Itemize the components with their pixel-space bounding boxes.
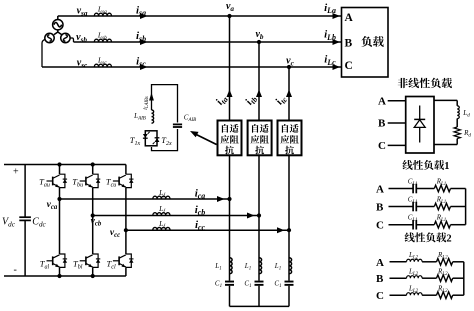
node va [226,1,234,18]
inductor Lsb [94,30,111,42]
resistor RL2 phase C [437,285,453,299]
capacitor CL1 phase B [408,195,418,211]
source neutral Y connection [54,16,62,35]
junction dot c [287,228,291,232]
thyristor T2x [153,135,172,147]
resistor RL1 phase A [434,178,450,192]
svg-text:B: B [376,202,384,214]
svg-text:A: A [345,12,354,24]
capacitor CL1 phase C [408,214,418,230]
junction dot a [227,197,231,201]
inductor LL2 phase A [407,251,423,262]
inverter leg b wire [91,162,95,278]
adaptive impedance box phase b [248,121,272,156]
svg-text:1: 1 [444,161,449,172]
terminal B nonlinear [378,118,406,130]
heading nonlinear load [398,78,408,88]
svg-text:-: - [14,265,17,276]
wire tap line b [258,42,260,306]
IGBT Tbu [72,174,100,188]
resistor RL2 phase A [437,251,453,265]
right bus load1 [465,189,467,225]
heading linear load 1 [403,160,413,170]
diode D [414,106,425,143]
svg-text:A: A [376,184,384,196]
svg-text:C: C [376,290,384,302]
current arrow isc [136,55,147,70]
current arrow icb [195,204,255,219]
wire phase line b [74,41,342,43]
node vb [255,29,263,44]
svg-text:A: A [376,257,384,269]
inductor Lsc [94,55,111,67]
node vc [286,56,294,70]
terminal A nonlinear [378,96,406,108]
resistor RL2 phase B [437,268,453,282]
svg-text:B: B [345,38,353,50]
current arrow itc [273,90,292,108]
IGBT Tbl [73,254,100,270]
svg-text:C: C [376,220,384,232]
inverter output line b [93,215,259,217]
resistor RL1 phase C [434,214,450,228]
current arrow icc [195,219,285,233]
pointer arrow to AIB box [190,131,217,145]
wire row A load2 [390,261,464,263]
wire source c down to line c [42,40,45,68]
resistor Rd [454,127,471,139]
filter inductor L1 phase b [244,258,262,274]
DC load wire [434,100,457,144]
AIB detail loop wire [152,85,178,151]
filter inductor Lf phase a [153,188,170,199]
filter inductor L1 phase a [214,258,232,274]
wire row C load2 [390,294,464,296]
adaptive impedance box phase c [278,121,302,156]
wire tap line a [229,16,231,306]
filter inductor Lf phase b [153,204,170,216]
wire row B load1 [389,206,466,208]
current arrow itb [243,90,262,108]
svg-text:B: B [376,273,384,285]
DC capacitor Cdc branch [19,165,31,277]
thyristor pair box [145,131,157,146]
DC bus bottom rail [4,275,126,277]
filter inductor L1 phase c [274,258,292,274]
node vcc [110,228,128,239]
svg-text:B: B [378,118,386,130]
IGBT Tcl [107,254,134,270]
filter capacitor C1 phase c [274,279,293,289]
wire phase line a [58,15,342,17]
inverter leg a wire [57,162,61,278]
wire phase line c [42,66,342,68]
inverter output line a [60,198,230,200]
wire row B load2 [390,277,464,279]
wire source b to line b [70,38,73,42]
filter capacitor C1 phase a [215,279,234,289]
heading linear load 2 [405,232,415,242]
filter common wire [230,305,290,307]
current arrow iLb [324,28,340,45]
junction dot b [257,213,261,217]
DC bus top rail [4,164,126,166]
AC source phase a [53,20,63,30]
inductor Ld [457,106,470,119]
inductor LAIB [133,110,153,123]
IGBT Tal [40,254,67,270]
wire row A load1 [389,188,466,190]
capacitor CAIB [173,114,196,128]
rectifier box [406,97,434,154]
node vca [47,197,62,211]
inductor Lsa [94,4,111,16]
AC source phase b [61,33,70,42]
adaptive impedance box phase a [218,121,242,156]
IGBT Tau [39,174,67,188]
wire tap line c [288,67,290,306]
current arrow ica [195,187,225,202]
inductor LL2 phase B [407,268,423,279]
svg-text:C: C [345,60,353,72]
IGBT Tcu [106,174,134,188]
current arrow iLAIBx [142,93,154,110]
current arrow iLa [324,2,340,19]
thyristor T1x [130,132,150,147]
resistor RL1 phase B [434,196,450,210]
inductor LL2 phase C [407,285,423,296]
inverter leg c wire [125,165,127,277]
svg-text:+: + [13,167,19,178]
wire row C load1 [389,224,466,226]
svg-text:C: C [378,140,386,152]
current arrow isb [136,30,148,45]
terminal C nonlinear [378,140,406,152]
current arrow isa [136,4,148,19]
load box (fu-zai) [342,8,389,78]
right bus load2 [463,262,465,295]
filter inductor Lf phase c [153,219,170,230]
svg-text:A: A [378,96,386,108]
svg-text:2: 2 [446,233,451,244]
current arrow ita [214,90,233,108]
capacitor CL1 phase A [408,177,418,193]
inverter output line c [126,229,289,231]
current arrow iLc [324,53,340,70]
node vcb [91,213,102,227]
AC source phase c [45,33,54,42]
filter capacitor C1 phase b [244,279,263,289]
